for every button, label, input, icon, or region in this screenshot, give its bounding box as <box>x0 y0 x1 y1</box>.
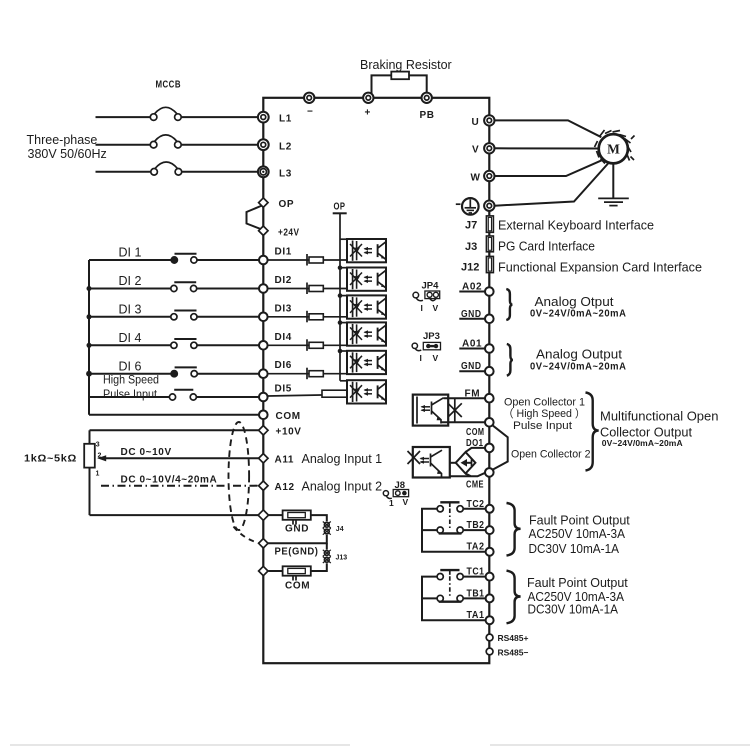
svg-text:High Speed: High Speed <box>103 373 159 387</box>
svg-text:COM: COM <box>276 411 301 422</box>
wire PE row to J13 <box>326 543 328 549</box>
breaker MCCB pole 3 <box>151 162 182 175</box>
optocoupler U1 DI1 <box>347 239 386 262</box>
terminal +24V <box>259 226 300 239</box>
svg-text:J13: J13 <box>336 555 348 562</box>
svg-text:0V~24V/0mA~20mA: 0V~24V/0mA~20mA <box>530 361 627 372</box>
ground motor <box>598 198 629 205</box>
svg-text:L1: L1 <box>279 114 292 125</box>
svg-text:FM: FM <box>465 389 481 400</box>
wire J13 to COM bead <box>311 563 327 571</box>
svg-text:DO1: DO1 <box>466 438 484 449</box>
brace fault output 1 <box>507 571 521 624</box>
svg-text:A11: A11 <box>275 455 295 466</box>
svg-text:U: U <box>472 117 480 128</box>
svg-text:Analog Otput: Analog Otput <box>535 295 615 309</box>
jumper JP4 <box>413 281 440 314</box>
svg-text:J4: J4 <box>336 526 344 533</box>
svg-text:I: I <box>420 353 422 363</box>
terminal V <box>472 143 494 156</box>
switch DI1 <box>171 254 197 263</box>
svg-text:DC 0~10V/4~20mA: DC 0~10V/4~20mA <box>121 475 218 486</box>
junction OP rail U3 <box>338 293 343 298</box>
wire J4 to PE row <box>268 535 327 543</box>
svg-text:RS485−: RS485− <box>498 648 529 658</box>
terminal W <box>471 171 495 184</box>
wire breaker 2 to L2 <box>181 144 258 146</box>
bridge diode DO1 <box>456 452 476 473</box>
resistor braking <box>391 72 409 80</box>
wire stub A01 <box>459 348 485 350</box>
wire stub opto U5 top <box>340 350 348 352</box>
wire stub opto U6 top <box>340 380 348 382</box>
terminal PE <box>259 539 268 548</box>
svg-text:COM: COM <box>285 581 310 592</box>
wire K2 left bus <box>422 509 486 552</box>
svg-text:W: W <box>471 172 481 183</box>
resistor DI1 input <box>307 254 323 266</box>
switch DI3 <box>171 311 197 320</box>
wire stub GND A02 <box>459 318 485 320</box>
svg-text:TA1: TA1 <box>467 610 485 621</box>
svg-text:J12: J12 <box>461 262 479 274</box>
connector J12 <box>461 256 493 273</box>
wire switch DI2 to terminal <box>197 288 259 290</box>
svg-text:JP3: JP3 <box>423 331 440 342</box>
svg-text:V: V <box>433 353 439 363</box>
brace multifunctional output <box>586 393 599 471</box>
resistor DI2 input <box>307 283 323 295</box>
terminal DO1 <box>466 438 494 452</box>
svg-text:1: 1 <box>389 498 394 508</box>
optocoupler U4 DI4 <box>347 322 386 345</box>
junction DI3 bus <box>87 314 92 319</box>
wire stub opto U1 top <box>340 238 348 240</box>
wire DI5 internal <box>268 395 348 397</box>
svg-text:COM: COM <box>466 427 485 438</box>
switch DI5 high speed <box>169 390 196 400</box>
wire FM box bottom to COM <box>441 421 485 423</box>
resistor DI5 input <box>322 390 348 397</box>
terminal TB2 <box>467 520 494 534</box>
switch DI6 <box>171 367 197 376</box>
svg-text:DC30V 10mA-1A: DC30V 10mA-1A <box>528 603 619 617</box>
wire DI6 row <box>89 373 171 375</box>
wire DI4 internal <box>268 344 346 346</box>
wire COM row <box>89 414 259 416</box>
wire +10V row <box>90 429 259 431</box>
svg-text:RS485+: RS485+ <box>498 633 529 643</box>
svg-text:TB2: TB2 <box>467 520 485 531</box>
terminal L3 <box>258 166 292 179</box>
wire pot bottom leg <box>89 468 91 515</box>
optocoupler U3 DI3 <box>347 295 386 318</box>
optocoupler U6 DI5 <box>347 380 386 403</box>
armature K1 <box>440 569 459 571</box>
svg-text:−: − <box>307 107 313 118</box>
wire PE to motor <box>495 163 609 206</box>
inverter main box <box>263 98 489 663</box>
switch DI2 <box>171 282 197 291</box>
terminal A01 <box>462 339 494 353</box>
terminal COM <box>259 411 301 423</box>
wire pot return to GND <box>90 514 259 516</box>
wire K2 NC to TB2 <box>463 529 485 531</box>
wire K2 NO to TC2 <box>463 508 485 510</box>
terminal COM output <box>466 418 494 438</box>
svg-text:MCCB: MCCB <box>156 80 182 91</box>
connector J7 <box>465 216 493 232</box>
brace fault output 2 <box>507 503 521 556</box>
svg-text:Open Collector 1: Open Collector 1 <box>504 396 585 408</box>
wire breaker 1 to L1 <box>181 116 258 118</box>
wire K1 NO to TC1 <box>463 576 485 578</box>
switch DI4 <box>171 339 197 348</box>
brace analog output A02 <box>506 289 512 320</box>
resistor DI4 input <box>307 339 323 351</box>
svg-text:GND: GND <box>285 524 309 535</box>
wire three-phase line 2 <box>96 144 151 146</box>
svg-text:V: V <box>433 303 439 313</box>
wire pot top leg <box>89 430 91 444</box>
jumper J8 <box>383 480 408 508</box>
contact K2 NC <box>437 527 443 533</box>
junction DI6 bus <box>86 371 92 377</box>
wire FM box to FM terminal <box>444 397 486 399</box>
wire switch DI1 to terminal <box>197 259 259 261</box>
svg-text:Functional Expansion Card Inte: Functional Expansion Card Interface <box>498 261 702 275</box>
svg-text:DI5: DI5 <box>275 384 292 395</box>
wire A11 with arrow <box>97 455 259 461</box>
svg-text:0V~24V/0mA~20mA: 0V~24V/0mA~20mA <box>602 438 683 448</box>
wire DI2 row <box>89 288 171 290</box>
terminal OP <box>259 198 295 210</box>
svg-text:Analog Input 1: Analog Input 1 <box>302 452 383 466</box>
wire stub opto U4 top <box>340 322 348 324</box>
shield cable ellipse <box>229 422 250 530</box>
wire DI6 internal <box>268 373 346 375</box>
wire motor to ground <box>612 163 614 197</box>
wire DI2 internal <box>268 288 346 290</box>
terminal TB1 <box>467 588 494 602</box>
wire A12 dash-dot <box>101 485 259 487</box>
jumper JP3 <box>412 331 440 363</box>
terminal GND A01 <box>461 361 494 375</box>
svg-text:DI1: DI1 <box>275 247 292 258</box>
relay K2 contacts <box>422 502 486 551</box>
wire W to motor <box>495 160 603 176</box>
svg-text:DI4: DI4 <box>275 332 292 343</box>
terminal DI6 <box>259 360 292 378</box>
terminal DI2 <box>259 275 292 293</box>
terminal DI1 <box>259 247 292 265</box>
svg-text:DI2: DI2 <box>275 275 292 286</box>
svg-text:380V 50/60Hz: 380V 50/60Hz <box>28 147 107 161</box>
wire three-phase line 3 <box>96 171 152 173</box>
terminal A12 <box>259 481 295 493</box>
svg-text:V: V <box>472 145 479 156</box>
svg-text:TC1: TC1 <box>467 567 485 578</box>
wire switch DI3 to terminal <box>197 316 259 318</box>
svg-text:1: 1 <box>96 471 100 478</box>
junction OP rail U2 <box>338 265 343 270</box>
svg-text:Three-phase: Three-phase <box>27 133 98 147</box>
svg-text:DI 6: DI 6 <box>119 360 142 374</box>
ferrite bead COM <box>283 566 311 580</box>
output transistor DO1 box <box>408 447 450 478</box>
terminal A11 <box>259 454 294 466</box>
label Fault Point Output 2 <box>529 513 631 556</box>
svg-text:DC30V 10mA-1A: DC30V 10mA-1A <box>529 542 620 556</box>
wire DI4 row <box>89 344 171 346</box>
terminal DI4 <box>259 332 292 350</box>
optocoupler U2 DI2 <box>347 268 386 291</box>
terminal A02 <box>462 282 494 296</box>
svg-text:PE(GND): PE(GND) <box>275 547 319 558</box>
svg-text:+: + <box>365 108 371 119</box>
svg-text:DI 2: DI 2 <box>119 274 142 288</box>
wire DI3 row <box>89 316 171 318</box>
wire bead GND to J4 <box>311 515 327 521</box>
earth symbol at PE terminal <box>456 198 479 215</box>
svg-text:+24V: +24V <box>278 228 300 239</box>
wire DI1 internal <box>268 259 346 261</box>
svg-text:AC250V 10mA-3A: AC250V 10mA-3A <box>529 527 626 541</box>
jumper J13 <box>323 550 347 563</box>
wire switch DI5 to terminal <box>196 396 259 398</box>
svg-text:External Keyboard Interface: External Keyboard Interface <box>498 219 654 233</box>
jumper J4 <box>323 522 344 535</box>
terminal TC1 <box>467 567 494 581</box>
wire DI3 internal <box>268 316 346 318</box>
svg-text:PB: PB <box>420 110 435 121</box>
image bottom edge artifact <box>10 744 750 746</box>
junction OP rail U4 <box>338 320 343 325</box>
svg-text:0V~24V/0mA~20mA: 0V~24V/0mA~20mA <box>530 309 627 320</box>
svg-text:Multifunctional Open: Multifunctional Open <box>600 410 719 424</box>
wire DI5 row <box>89 396 169 398</box>
svg-text:GND: GND <box>461 361 482 372</box>
wire stub A02 <box>459 291 485 293</box>
connector J3 <box>465 236 493 253</box>
wire COM to CME bracket <box>493 425 508 470</box>
wire U to motor <box>495 120 602 137</box>
wire bridge and box to CME <box>450 473 486 477</box>
terminal PE earth <box>484 201 494 211</box>
svg-text:3: 3 <box>96 442 100 449</box>
wire three-phase line 1 <box>96 116 151 118</box>
terminal PB <box>420 93 435 121</box>
junction OP rail U5 <box>338 349 343 354</box>
svg-text:OP: OP <box>279 199 295 210</box>
optocoupler U5 DI6 <box>347 351 386 374</box>
wire bridge to DO1 terminal <box>466 448 486 452</box>
svg-text:Analog Output: Analog Output <box>536 347 623 361</box>
shield drain wire dashed <box>234 527 259 543</box>
terminal minus <box>304 93 314 118</box>
wire stub opto U3 top <box>340 295 348 297</box>
resistor DI6 input <box>307 368 323 380</box>
wire K1 NC to TB1 <box>463 597 485 599</box>
terminal GND A02 <box>461 309 494 323</box>
svg-text:V: V <box>403 497 409 507</box>
terminal +10V <box>259 426 302 438</box>
svg-text:GND: GND <box>461 309 482 320</box>
label Three-phase 380V 50/60Hz <box>27 133 107 161</box>
wire stub opto U2 top <box>340 267 348 269</box>
wire switch DI6 to terminal <box>197 373 259 375</box>
svg-text:A12: A12 <box>275 482 295 493</box>
svg-text:OP: OP <box>334 202 346 213</box>
junction DI2 bus <box>87 286 92 291</box>
svg-text:DI 3: DI 3 <box>119 303 142 317</box>
svg-text:A01: A01 <box>462 339 482 350</box>
armature K2 <box>440 501 459 503</box>
svg-text:+10V: +10V <box>276 427 302 438</box>
jumper link OP to +24V <box>247 206 263 230</box>
terminal DI3 <box>259 303 292 321</box>
svg-text:J7: J7 <box>465 219 477 231</box>
svg-text:（ High Speed ）: （ High Speed ） <box>503 407 586 420</box>
svg-text:TA2: TA2 <box>467 542 485 553</box>
terminal U <box>472 115 495 128</box>
svg-text:I: I <box>421 303 423 313</box>
terminal L1 <box>258 112 292 125</box>
motor M1 <box>595 130 635 164</box>
wire breaker 3 to L3 <box>182 171 258 173</box>
junction DI4 bus <box>87 343 92 348</box>
svg-text:CME: CME <box>466 480 484 491</box>
svg-text:DI 4: DI 4 <box>119 331 142 345</box>
svg-text:Braking Resistor: Braking Resistor <box>360 58 452 72</box>
wire DO1 box to bridge <box>450 462 456 464</box>
svg-text:Pulse Input: Pulse Input <box>513 420 572 432</box>
svg-text:Pulse Input: Pulse Input <box>103 387 158 401</box>
DI bus vertical <box>88 260 90 415</box>
terminal DI5 <box>259 384 292 402</box>
svg-text:Analog Input 2: Analog Input 2 <box>302 479 383 493</box>
svg-text:TC2: TC2 <box>467 499 485 510</box>
terminal GND analog <box>258 510 268 520</box>
wire bead to COM terminal <box>269 570 283 572</box>
terminal TA2 <box>467 542 494 556</box>
svg-text:J3: J3 <box>465 241 477 253</box>
terminal TC2 <box>467 499 494 513</box>
wire DI1 row <box>89 259 171 261</box>
resistor DI3 input <box>307 311 323 323</box>
breaker MCCB pole 1 <box>150 107 181 120</box>
terminal RS485+ <box>486 633 528 643</box>
svg-text:Open Collector 2: Open Collector 2 <box>511 448 591 460</box>
svg-text:L2: L2 <box>279 142 292 153</box>
terminal COM lower <box>259 566 268 575</box>
svg-text:Fault Point Output: Fault Point Output <box>529 513 630 527</box>
terminal L2 <box>258 139 292 152</box>
terminal TA1 <box>467 610 494 624</box>
svg-text:Fault Point Output: Fault Point Output <box>527 576 628 590</box>
terminal plus <box>363 93 373 119</box>
node OP rail label <box>333 202 347 214</box>
wire K1 left bus <box>422 577 486 621</box>
svg-text:PG Card Interface: PG Card Interface <box>498 240 595 254</box>
potentiometer RP1 1k-5k <box>84 442 101 478</box>
wire GND to bead <box>269 514 283 516</box>
contact K2 NO <box>437 506 443 512</box>
brace analog output A01 <box>507 344 513 376</box>
svg-text:M: M <box>607 142 620 157</box>
svg-text:DI 1: DI 1 <box>119 246 142 260</box>
output transistor FM box <box>413 395 448 426</box>
svg-text:1kΩ~5kΩ: 1kΩ~5kΩ <box>24 454 77 465</box>
terminal CME <box>466 468 494 491</box>
label Fault Point Output 1 <box>527 576 628 617</box>
ferrite bead GND <box>283 510 311 524</box>
svg-text:DC 0~10V: DC 0~10V <box>121 447 172 458</box>
wire OP rail vertical <box>339 213 341 380</box>
wire switch DI4 to terminal <box>197 344 259 346</box>
svg-text:A02: A02 <box>462 282 482 293</box>
svg-text:L3: L3 <box>279 169 292 180</box>
svg-text:JP4: JP4 <box>422 281 440 292</box>
svg-text:DI3: DI3 <box>275 303 292 314</box>
wire stub GND A01 <box>459 370 485 372</box>
svg-text:DI6: DI6 <box>275 360 292 371</box>
contact K1 NO <box>437 574 443 580</box>
relay K1 contacts <box>422 570 486 620</box>
breaker MCCB pole 2 <box>150 135 181 148</box>
contact K1 NC <box>437 595 443 601</box>
terminal FM <box>465 389 494 403</box>
svg-text:TB1: TB1 <box>467 588 485 599</box>
wire V to motor <box>495 147 599 149</box>
terminal RS485- <box>486 648 528 658</box>
varistor X link FM-COM <box>448 398 462 422</box>
braking resistor loop wire <box>372 75 427 93</box>
